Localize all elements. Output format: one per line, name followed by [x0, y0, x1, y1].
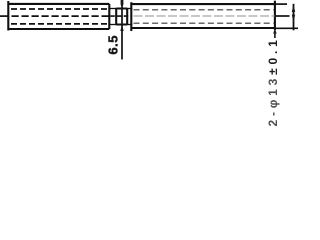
svg-text:6.5: 6.5: [105, 35, 120, 55]
svg-text:2-φ13±0.1: 2-φ13±0.1: [266, 36, 280, 126]
